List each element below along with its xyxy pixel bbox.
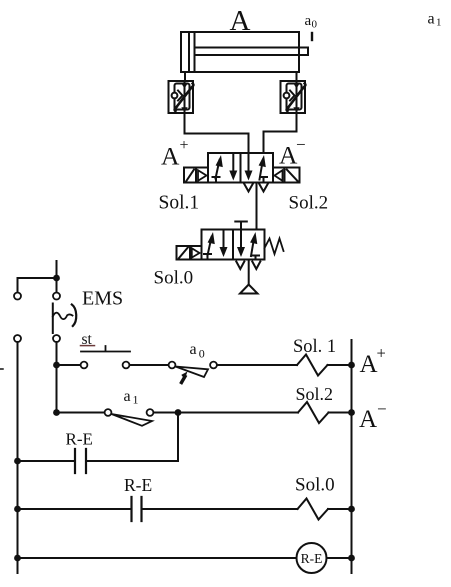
wire Sol.1 to right rail <box>328 364 352 366</box>
relay coil R-E circle <box>297 543 327 573</box>
valve Sol.0 right chamber blocked port T <box>252 256 259 260</box>
exhaust line <box>248 260 250 285</box>
wire Sol.0 rung left <box>18 508 132 510</box>
a1 contact pivot circle <box>105 409 112 416</box>
left terminal circle lower <box>14 335 21 342</box>
svg-text:Sol.0: Sol.0 <box>295 475 335 496</box>
EMS squiggle link <box>53 313 73 319</box>
st contact circle left <box>81 362 88 369</box>
wire a1 rung left <box>57 412 105 414</box>
svg-text:Sol.1: Sol.1 <box>159 193 200 214</box>
svg-text:R-E: R-E <box>124 475 152 495</box>
a1 contact circle right <box>147 409 154 416</box>
valve 5/2 left chamber up arrow <box>216 155 223 179</box>
right rail <box>351 340 353 573</box>
junction Sol.1 right rail <box>348 362 355 369</box>
EMS terminal circle upper <box>53 293 60 300</box>
wire right valve to 5/2 valve port <box>264 113 297 153</box>
valve Sol.0 exhaust check right <box>252 262 260 270</box>
junction Sol.0 rung left rail <box>14 506 21 513</box>
junction st rung <box>53 362 60 369</box>
wire bottom rung <box>18 557 297 559</box>
flow control valve left check ball and seat <box>172 91 183 101</box>
valve 5/2 right chamber up arrow <box>259 155 266 180</box>
label a1 (ladder) <box>124 388 139 407</box>
flow control valve right throttle diagonal <box>287 84 306 112</box>
wire st rung left <box>57 364 81 366</box>
wire st to a0 <box>130 364 169 366</box>
svg-text:Sol. 1: Sol. 1 <box>293 337 336 357</box>
flow control valve right inner loop <box>287 84 302 110</box>
valve Sol.0 body <box>202 230 265 260</box>
wire a1 junction to Sol.2 coil <box>178 412 298 414</box>
valve Sol.0 left solenoid box <box>177 246 202 260</box>
svg-text:R-E: R-E <box>301 551 323 566</box>
valve Sol.0 left chamber down arrow <box>220 230 228 258</box>
wire a1 to junction <box>154 412 179 414</box>
EMS branch lower wire <box>56 342 58 413</box>
wire Sol.0 to right rail <box>328 508 352 510</box>
svg-text:1: 1 <box>133 393 139 407</box>
a1 contact blade triangle <box>112 414 153 426</box>
svg-text:−: − <box>296 135 306 154</box>
junction a1 rung <box>53 409 60 416</box>
a0 actuator arrow <box>181 372 187 383</box>
svg-text:A: A <box>360 351 378 378</box>
label a1 (top right corner) <box>428 11 442 29</box>
a0 contact pivot circle <box>169 362 176 369</box>
flow control valve left throttle diagonal <box>175 84 194 112</box>
svg-text:Sol.2: Sol.2 <box>296 384 334 404</box>
svg-text:A: A <box>161 142 180 171</box>
flow control valve left (outer box) <box>169 81 194 113</box>
wire 5/2 valve to Sol.0 valve <box>256 183 258 230</box>
EMS terminal circle lower <box>53 335 60 342</box>
svg-text:1: 1 <box>436 17 442 29</box>
coil Sol.2 zigzag <box>298 402 329 423</box>
svg-text:R-E: R-E <box>66 430 93 449</box>
st underline <box>81 345 95 347</box>
wire Sol.2 to right rail <box>329 412 352 414</box>
wire cylinder left port <box>184 72 186 81</box>
svg-text:a: a <box>428 11 435 28</box>
svg-text:+: + <box>180 137 189 154</box>
junction bottom rung left rail <box>14 555 21 562</box>
valve 5/2 exhaust check right <box>259 184 267 192</box>
valve Sol.0 left chamber up arrow <box>208 232 215 256</box>
valve 5/2 left chamber down arrow <box>229 153 237 181</box>
cylinder piston rod <box>195 48 309 56</box>
R-E contact bars <box>75 449 86 473</box>
valve 5/2 body <box>208 153 273 183</box>
left branch stub <box>17 278 19 293</box>
EMS mushroom cap arc <box>72 305 76 327</box>
label a0 (ladder) <box>190 341 205 360</box>
svg-text:0: 0 <box>199 347 205 361</box>
valve 5/2 left chamber blocked port T <box>213 177 220 183</box>
svg-text:Sol.0: Sol.0 <box>154 268 194 289</box>
top feed stub <box>56 261 58 278</box>
wire coil to right rail <box>327 557 352 559</box>
svg-text:a: a <box>190 341 197 358</box>
svg-text:+: + <box>377 344 386 363</box>
svg-text:Sol.2: Sol.2 <box>289 193 329 214</box>
cylinder A body <box>181 32 299 72</box>
valve Sol.0 middle divider <box>232 230 234 260</box>
wire a0 to Sol.1 coil <box>217 364 297 366</box>
svg-text:a: a <box>124 388 131 405</box>
Sol.0 valve blocked top port T <box>235 222 247 230</box>
svg-text:EMS: EMS <box>82 288 123 310</box>
valve 5/2 right chamber blocked port T <box>260 177 267 183</box>
R-E contact bars 2 <box>132 497 142 521</box>
wire R-E contact to riser <box>86 413 178 462</box>
cylinder piston (double line) <box>188 32 190 72</box>
flow control valve left flow line with arrowheads <box>181 81 188 113</box>
small edge mark <box>0 368 3 370</box>
valve Sol.0 right chamber up arrow <box>250 232 257 256</box>
junction a1/R-E <box>175 409 182 416</box>
junction top <box>53 275 60 282</box>
EMS branch upper wire <box>56 278 58 293</box>
label A+ (valve) <box>161 137 189 171</box>
svg-text:−: − <box>377 400 387 419</box>
svg-text:A: A <box>359 406 377 433</box>
svg-text:0: 0 <box>312 19 318 31</box>
exhaust triangle <box>240 285 258 294</box>
valve Sol.0 exhaust check left <box>236 262 244 270</box>
junction Sol.2 right rail <box>348 409 355 416</box>
label A+ (ladder) <box>360 344 386 378</box>
svg-text:a: a <box>305 13 312 29</box>
wire cylinder right port <box>296 72 298 81</box>
valve Sol.0 left chamber blocked port T <box>204 254 211 260</box>
label a0 (cylinder sensor, top) <box>305 13 318 31</box>
wire R-E 2 to Sol.0 coil <box>142 508 298 510</box>
a0 contact circle right <box>210 362 217 369</box>
st pushbutton bar <box>81 346 130 352</box>
valve Sol.0 right chamber down arrow <box>237 230 245 258</box>
flow control valve right check ball and seat <box>284 91 295 101</box>
label A- (ladder) <box>359 400 387 434</box>
junction bottom right rail <box>348 555 355 562</box>
wire R-E rung left <box>18 460 76 462</box>
junction Sol.0 right rail <box>348 506 355 513</box>
valve 5/2 exhaust check left <box>244 184 252 192</box>
flow control valve right (outer box) <box>281 81 306 113</box>
valve 5/2 middle divider <box>240 153 242 183</box>
flow control valve right flow line with arrowheads <box>293 81 300 113</box>
flow control valve left inner loop <box>175 84 190 110</box>
valve 5/2 right solenoid box <box>273 168 300 183</box>
coil Sol.0 zigzag <box>298 499 329 520</box>
coil Sol.1 zigzag <box>297 355 328 376</box>
left rail <box>17 342 19 573</box>
st contact circle right <box>123 362 130 369</box>
EMS contact blade <box>52 304 54 334</box>
valve Sol.0 return spring <box>265 239 284 255</box>
valve 5/2 left solenoid box <box>184 168 208 183</box>
a0 sensor tick mark <box>311 33 313 40</box>
label A- (valve) <box>279 135 306 170</box>
left terminal circle upper <box>14 293 21 300</box>
valve 5/2 right chamber down arrow <box>245 153 253 181</box>
wire left valve to 5/2 valve port <box>185 113 249 153</box>
junction R-E rung left rail <box>14 458 21 465</box>
top wire <box>18 277 57 279</box>
a0 contact blade triangle <box>176 367 209 378</box>
